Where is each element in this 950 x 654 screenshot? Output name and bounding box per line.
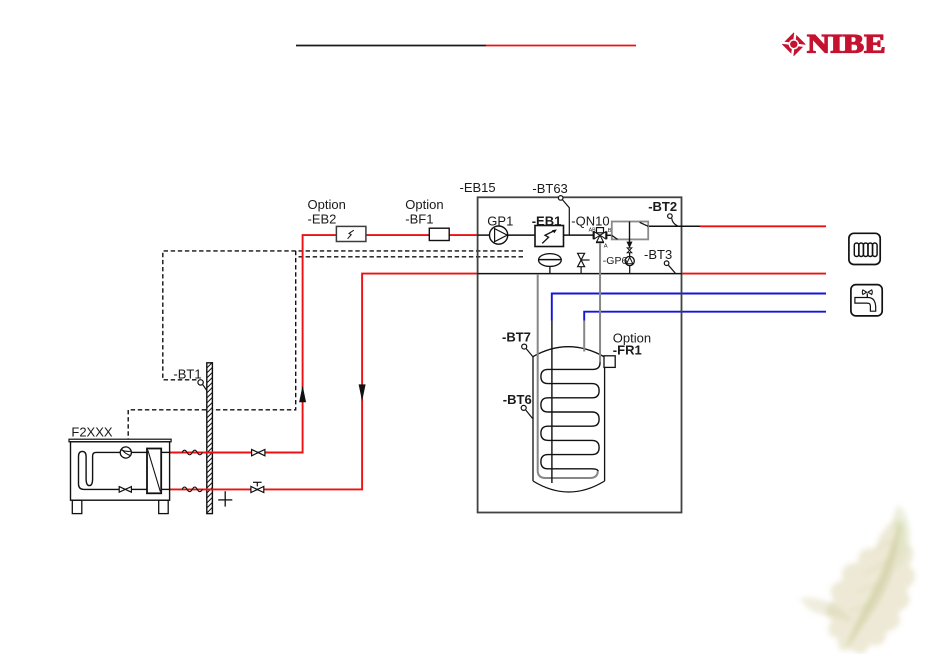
svg-text:-GP6: -GP6 <box>603 255 628 267</box>
hot water tank <box>533 347 605 492</box>
svg-text:GP1: GP1 <box>487 213 513 228</box>
svg-text:A: A <box>604 243 608 249</box>
pipes HX to body edge <box>161 451 170 453</box>
svg-text:-BT1: -BT1 <box>173 366 201 381</box>
option flow meter BF1 <box>429 228 449 240</box>
wall <box>207 362 213 513</box>
compressor <box>120 447 131 458</box>
svg-text:-BT3: -BT3 <box>644 247 672 262</box>
sensor BT63 <box>558 196 569 236</box>
pipe valve to HX <box>131 488 147 490</box>
option FR1 box <box>604 356 615 368</box>
heat exchanger <box>147 449 161 494</box>
svg-text:-EB2: -EB2 <box>308 211 337 226</box>
svg-text:-BT6: -BT6 <box>503 392 532 407</box>
coil heat exchanger <box>541 363 600 472</box>
gray hot water stub <box>583 321 585 352</box>
sensor BT6 <box>521 405 532 418</box>
black line gray-box to radiator supply <box>648 225 700 227</box>
safety valve <box>578 253 590 273</box>
electric heater EB1 <box>535 226 564 247</box>
header rule black <box>296 45 486 47</box>
svg-text:-BT7: -BT7 <box>502 329 531 344</box>
option heater EB2 <box>336 226 366 241</box>
svg-text:Option: Option <box>405 197 443 212</box>
svg-text:-FR1: -FR1 <box>613 343 642 358</box>
tap icon <box>851 285 882 316</box>
arrow down to GP6 <box>627 242 633 249</box>
shutoff valve supply <box>252 449 265 455</box>
black supply line inside <box>478 234 612 236</box>
pump GP6 <box>625 253 634 274</box>
flex hose bottom <box>182 487 202 492</box>
svg-text:-EB15: -EB15 <box>460 180 496 195</box>
gray charge pipe to coil bottom <box>538 274 598 478</box>
svg-text:-BT2: -BT2 <box>648 199 677 214</box>
evaporator hairpin <box>79 451 121 489</box>
pipe compressor to HX <box>131 451 147 453</box>
svg-text:Option: Option <box>308 197 346 212</box>
3-way valve QN10 <box>593 228 606 243</box>
sensor BT2 <box>668 214 678 226</box>
red radiator supply <box>700 225 826 227</box>
red return pipe <box>170 274 478 490</box>
arrow down on return <box>359 384 366 401</box>
sensor BT7 <box>522 344 533 357</box>
sensor BT3 <box>664 261 675 274</box>
svg-text:-EB1: -EB1 <box>532 213 562 228</box>
svg-text:AB: AB <box>589 228 597 234</box>
radiator icon <box>849 233 880 264</box>
red supply pipe <box>170 235 478 452</box>
blue cold water pipe <box>552 294 826 321</box>
blue hot water pipe <box>584 312 826 321</box>
gray pipe QN10 to coil top <box>599 244 601 364</box>
expansion vessel <box>539 254 562 274</box>
svg-text:F2XXX: F2XXX <box>71 425 113 440</box>
svg-text:-BT63: -BT63 <box>532 181 567 196</box>
flex hose top <box>182 450 202 455</box>
check valve <box>627 248 632 253</box>
svg-text:-BF1: -BF1 <box>405 211 433 226</box>
header rule red <box>486 45 636 47</box>
red radiator return <box>682 273 827 275</box>
black sensor tube <box>551 321 553 484</box>
black return line inside <box>478 273 682 275</box>
enclosure EB15 <box>478 197 682 512</box>
svg-text:-QN10: -QN10 <box>571 213 609 228</box>
sensor BT1 <box>198 380 207 391</box>
expansion valve <box>119 487 131 493</box>
arrow up on supply <box>299 386 306 403</box>
dashed cable BT1 to unit <box>128 251 523 439</box>
drain valve return <box>251 482 264 492</box>
outdoor unit F2XXX <box>69 439 171 513</box>
NIBE logo <box>781 30 885 59</box>
pump GP1 <box>490 226 508 244</box>
drain cross <box>218 491 232 506</box>
docking block <box>612 222 648 243</box>
svg-text:NIBE: NIBE <box>807 30 886 59</box>
